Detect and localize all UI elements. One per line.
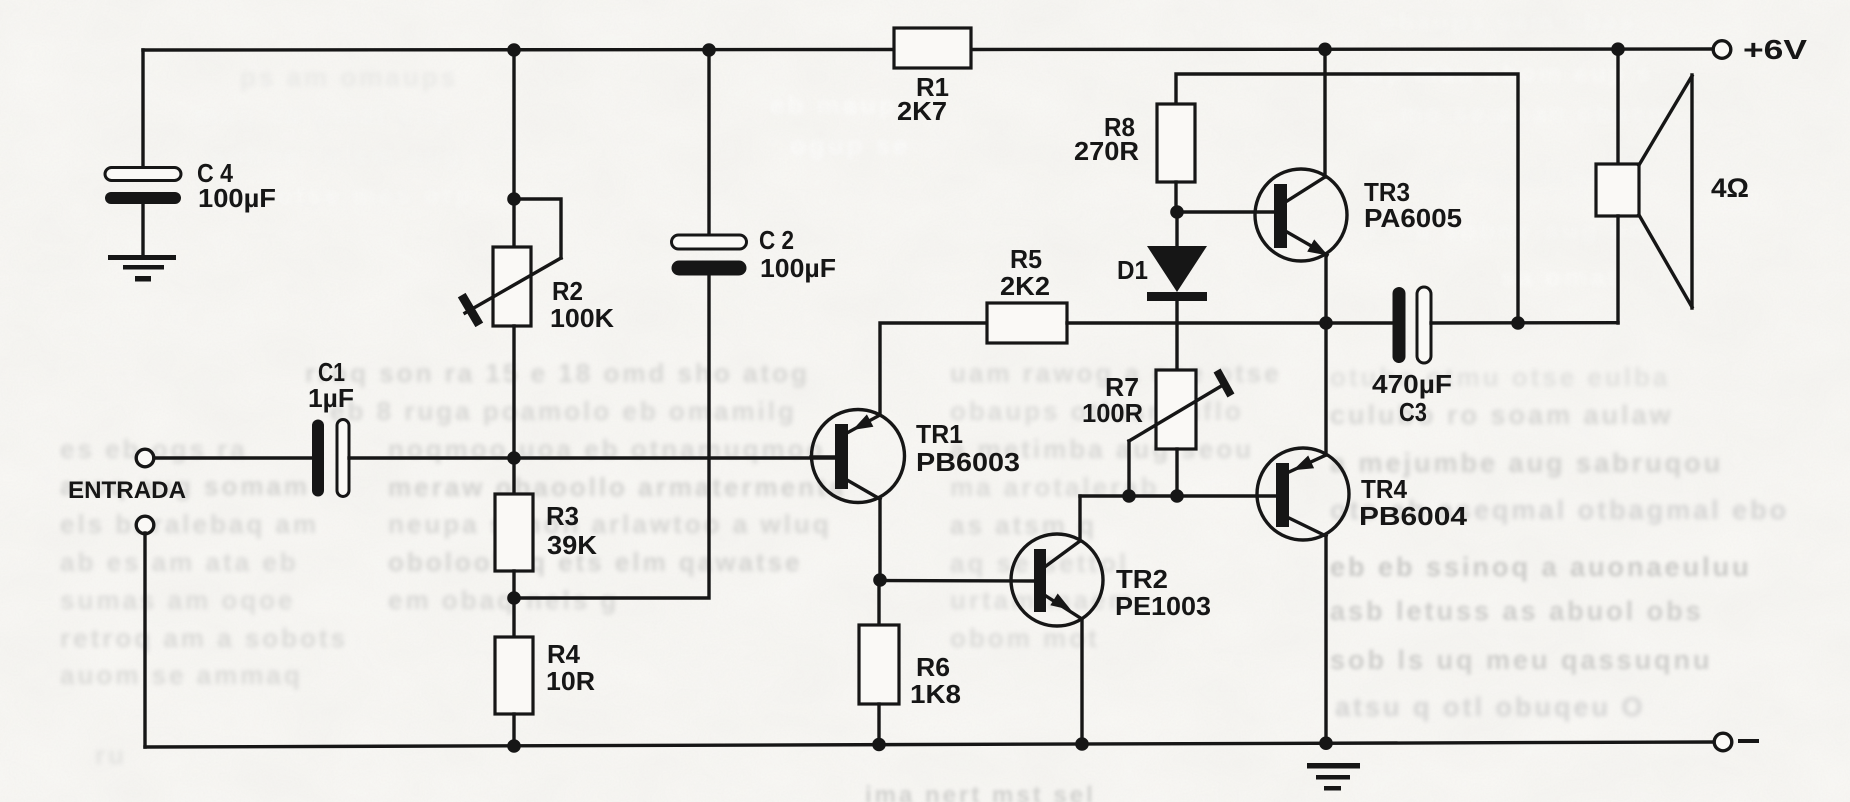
svg-text:PE1003: PE1003 xyxy=(1115,591,1211,621)
wire R6 to bottom rail xyxy=(877,704,880,745)
speaker 4 ohm xyxy=(1596,75,1692,308)
wire top rail down to C4 xyxy=(141,50,144,169)
resistor R1 xyxy=(894,28,971,68)
trimmer R7 wiper link down xyxy=(1127,441,1130,496)
svg-text:PA6005: PA6005 xyxy=(1364,203,1462,233)
transistor TR1 emitter arrowhead xyxy=(853,414,874,430)
wire top rail down to speaker xyxy=(1616,49,1619,165)
svg-text:1µF: 1µF xyxy=(308,383,354,413)
capacitor C1 xyxy=(312,420,324,497)
svg-text:R6: R6 xyxy=(916,652,950,682)
wire TR2 collector up to TR4 base line xyxy=(1078,496,1081,541)
svg-text:100R: 100R xyxy=(1082,398,1143,428)
svg-text:ENTRADA: ENTRADA xyxy=(68,477,186,504)
wire R7 to TR4 base node xyxy=(1175,449,1178,496)
terminal +6V xyxy=(1713,41,1731,59)
resistor R5 xyxy=(987,303,1067,343)
transistor TR2 xyxy=(1011,534,1103,626)
node junction top rail / C2 xyxy=(702,43,716,57)
node output junction TR3/TR4 emitters xyxy=(1319,316,1333,330)
wire R5 to output node xyxy=(1067,321,1394,324)
svg-text:100µF: 100µF xyxy=(760,253,836,283)
transistor TR3 xyxy=(1255,169,1347,261)
node R7 bottom junction xyxy=(1170,489,1184,503)
svg-text:PB6004: PB6004 xyxy=(1359,501,1468,531)
diode D1 xyxy=(1175,212,1178,248)
wire TR4 collector to bottom rail xyxy=(1324,536,1327,744)
potentiometer R2 wiper link xyxy=(516,199,561,258)
wire C4 to ground xyxy=(141,204,144,256)
node junction top rail / speaker xyxy=(1611,42,1625,56)
potentiometer R2 body xyxy=(493,247,531,326)
wire bottom rail xyxy=(145,742,1715,747)
ground symbol xyxy=(1307,763,1360,769)
wire TR3 base xyxy=(1177,210,1274,213)
node input junction xyxy=(507,451,521,465)
svg-text:2K2: 2K2 xyxy=(1000,271,1050,301)
wire bootstrap R8 top to C3 output xyxy=(1176,74,1518,323)
transistor TR4 xyxy=(1257,448,1349,540)
wire R4 to bottom rail xyxy=(512,714,515,747)
svg-text:R4: R4 xyxy=(547,639,581,669)
wire top rail down to C2 xyxy=(707,50,710,237)
trimmer R7 body xyxy=(1156,370,1196,449)
terminal ENTRADA lower xyxy=(136,516,154,534)
svg-text:270R: 270R xyxy=(1074,136,1139,166)
wire C1 to TR1 base xyxy=(349,456,835,459)
wire junction down to R6 xyxy=(877,580,880,626)
resistor R8 xyxy=(1157,104,1195,182)
node R2 wiper junction xyxy=(507,192,521,206)
terminal ENTRADA upper xyxy=(136,449,154,467)
potentiometer R2 wiper arrowhead xyxy=(464,299,477,321)
wire TR2 collector to TR4 base xyxy=(1080,494,1276,497)
node junction top rail / R2 xyxy=(507,43,521,57)
wire C3 to speaker xyxy=(1431,321,1618,325)
wire TR3 emitter to output node xyxy=(1324,255,1327,323)
svg-text:PB6003: PB6003 xyxy=(916,447,1020,477)
transistor TR3 emitter arrowhead xyxy=(1307,239,1328,255)
node bottom rail / TR4 collector ground xyxy=(1319,736,1333,750)
node bottom rail / R6 xyxy=(872,738,886,752)
wire TR3 collector to top rail xyxy=(1323,49,1326,177)
svg-text:TR4: TR4 xyxy=(1361,474,1407,504)
resistor R3 xyxy=(495,494,533,571)
capacitor C3 xyxy=(1393,287,1406,363)
wire ENTRADA lower to bottom rail xyxy=(143,533,146,747)
wire input to C1 xyxy=(154,456,316,459)
transistor TR2 emitter arrowhead xyxy=(1050,594,1071,611)
wire speaker to C3 output xyxy=(1616,216,1619,323)
wire R2 to input node xyxy=(512,326,515,458)
resistor R4 xyxy=(495,637,533,714)
node R7 wiper junction xyxy=(1122,489,1136,503)
label minus xyxy=(1740,739,1757,743)
ground below C4 xyxy=(108,255,176,260)
wire output node down to TR4 emitter xyxy=(1324,323,1327,455)
svg-text:C3: C3 xyxy=(1399,397,1427,427)
svg-text:R5: R5 xyxy=(1010,244,1042,274)
wire top rail down to R2 xyxy=(512,50,515,249)
wire junction to TR2 base xyxy=(880,579,1035,583)
node bootstrap junction after C3 xyxy=(1511,316,1525,330)
node bottom rail / TR2 emitter xyxy=(1075,737,1089,751)
node TR1/R6/TR2 junction xyxy=(873,573,887,587)
svg-text:10R: 10R xyxy=(546,666,595,696)
wire R3/R4 junction to C2 bottom xyxy=(516,272,709,598)
svg-text:100µF: 100µF xyxy=(198,183,276,213)
wire TR1 top to R5 xyxy=(880,323,987,415)
node junction top rail / TR3 collector xyxy=(1318,43,1332,57)
svg-text:100K: 100K xyxy=(550,303,614,333)
wire TR2 emitter to bottom rail xyxy=(1080,619,1083,744)
terminal minus xyxy=(1714,733,1732,751)
svg-text:C 2: C 2 xyxy=(759,225,794,255)
svg-text:2K7: 2K7 xyxy=(897,96,947,126)
node R3/R4 junction xyxy=(507,591,521,605)
wire +6V top rail left segment xyxy=(143,48,893,52)
wire TR1 bottom to R6/TR2 node xyxy=(878,499,881,580)
transistor TR1 xyxy=(811,410,905,503)
node TR3 base / D1 junction xyxy=(1170,205,1184,219)
trimmer R7 wiper arrow xyxy=(1129,385,1223,441)
resistor R6 xyxy=(859,625,899,704)
wire R3 to R4 xyxy=(512,571,515,638)
capacitor C4 xyxy=(105,168,181,181)
svg-text:1K8: 1K8 xyxy=(910,679,961,709)
transistor TR4 emitter arrowhead xyxy=(1293,456,1314,471)
wire +6V top rail right segment xyxy=(972,47,1714,51)
wire input node down to R3 xyxy=(512,458,515,495)
capacitor C2 xyxy=(672,235,747,249)
svg-text:+6V: +6V xyxy=(1743,34,1807,65)
svg-text:D1: D1 xyxy=(1117,255,1148,285)
wire R8 to TR3 base node xyxy=(1174,182,1177,214)
svg-text:R3: R3 xyxy=(546,501,579,531)
svg-text:39K: 39K xyxy=(547,530,597,560)
svg-text:TR1: TR1 xyxy=(916,419,963,449)
svg-text:4Ω: 4Ω xyxy=(1711,173,1749,203)
svg-text:R2: R2 xyxy=(552,276,583,306)
svg-text:TR2: TR2 xyxy=(1116,564,1168,594)
svg-text:470µF: 470µF xyxy=(1372,369,1452,399)
node bottom rail / R4 xyxy=(507,739,521,753)
